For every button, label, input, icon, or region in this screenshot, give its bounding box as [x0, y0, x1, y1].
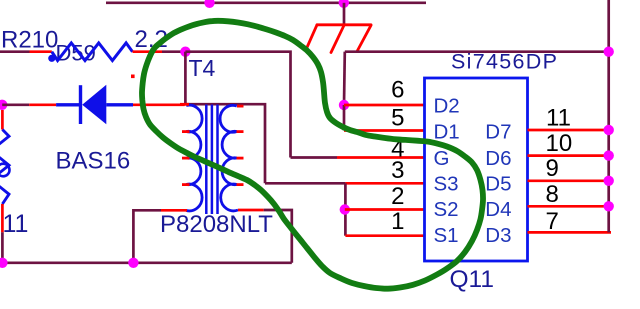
- wire rail from T4 junction east to corner: [185, 52, 290, 158]
- svg-text:7: 7: [546, 208, 559, 235]
- node right rail top junction: [604, 47, 614, 57]
- transformer T4 P8208NLT: [180, 103, 244, 214]
- wire secondary bottom to bottom rail corner: [264, 210, 292, 263]
- node pin 2 junction: [340, 204, 350, 214]
- wire vertical to pin6 junction: [343, 52, 346, 105]
- wire R210 right pin stub: [133, 50, 163, 53]
- wire pin 3 purple from corner: [265, 182, 345, 185]
- svg-text:10: 10: [546, 130, 573, 157]
- svg-text:P8208NLT: P8208NLT: [160, 211, 273, 238]
- wire T4 primary bottom pin stub: [161, 209, 187, 212]
- wire BAS16 anode segment: [2, 103, 29, 106]
- svg-text:D1: D1: [434, 120, 460, 143]
- wire pin 11: [528, 129, 609, 132]
- op chip Q11 Si7456DP box: [425, 78, 528, 261]
- svg-text:D4: D4: [485, 198, 511, 221]
- wire pin 4 stub: [337, 156, 424, 159]
- wire pin 5: [344, 129, 424, 132]
- diode D59 BAS16: [56, 85, 133, 125]
- svg-text:G: G: [434, 147, 450, 170]
- node bottom rail left: [0, 258, 8, 268]
- node top rail junction A: [204, 0, 214, 8]
- wire primary bottom to bottom rail: [133, 210, 161, 262]
- svg-text:BAS16: BAS16: [56, 148, 131, 175]
- wire bottom rail: [2, 261, 291, 264]
- svg-text:8: 8: [546, 181, 559, 208]
- wire R210 left pin stub: [30, 50, 52, 53]
- wire pin 4 gate purple: [291, 156, 338, 159]
- svg-text:Si7456DP: Si7456DP: [451, 50, 558, 74]
- wire pin 6: [344, 104, 424, 107]
- svg-text:D5: D5: [485, 173, 511, 196]
- wire T4 secondary bottom pin stub: [238, 209, 264, 212]
- svg-text:Q11: Q11: [450, 266, 495, 293]
- svg-text:1: 1: [391, 208, 404, 235]
- node blue dot at resistor left: [48, 55, 55, 62]
- wire junction down to pin5: [343, 105, 346, 131]
- wire cathode net over transformer to corner: [185, 104, 265, 183]
- wire T4 primary top lead: [184, 52, 187, 105]
- node pin 10 junction: [604, 150, 614, 160]
- wire pin 7: [528, 231, 612, 234]
- svg-text:11: 11: [3, 210, 29, 238]
- node bottom rail mid: [128, 258, 138, 268]
- wire BAS16 anode pin stub: [29, 103, 56, 106]
- wire pin 1: [345, 234, 424, 237]
- wire chassis net east rail: [345, 50, 609, 53]
- wire pin 10: [528, 154, 609, 157]
- svg-text:9: 9: [546, 155, 559, 182]
- chassis ground symbol: [307, 25, 372, 53]
- annotation green loop: [142, 21, 483, 289]
- node pin 8 junction: [604, 201, 614, 211]
- node pin 11 junction: [604, 125, 614, 135]
- wire BAS16 cathode pin stub: [133, 103, 185, 106]
- node pin 9 junction: [604, 176, 614, 186]
- svg-text:2: 2: [391, 183, 404, 210]
- wire R210 net left segment: [0, 50, 30, 53]
- node top rail junction B: [339, 0, 349, 8]
- resistor R210 zigzag: [52, 43, 133, 61]
- svg-text:11: 11: [546, 104, 571, 131]
- svg-text:S2: S2: [434, 198, 459, 221]
- wire from top rail down to chassis symbol: [343, 3, 346, 26]
- core lines: [205, 105, 208, 215]
- secondary tap marks: [237, 130, 244, 133]
- wire pin 8: [528, 205, 609, 208]
- red marker near T4: [131, 75, 135, 79]
- wire pin 9: [528, 179, 609, 182]
- svg-text:R210: R210: [1, 27, 58, 54]
- primary tap marks: [182, 130, 190, 133]
- node T4 top junction: [180, 47, 190, 57]
- primary winding (left): [186, 105, 202, 211]
- wire left resistor to bottom rail: [1, 232, 4, 262]
- wire pin 3 stub: [345, 182, 424, 185]
- wire pin 2: [345, 208, 424, 211]
- svg-text:D2: D2: [434, 95, 460, 118]
- svg-text:D7: D7: [485, 120, 511, 143]
- svg-text:T4: T4: [189, 55, 216, 81]
- wire top rail: [106, 1, 426, 4]
- wire right vertical rail: [607, 0, 610, 232]
- wire S net vertical: [344, 183, 347, 235]
- svg-text:6: 6: [391, 77, 404, 104]
- secondary winding (right): [220, 105, 238, 211]
- svg-text:S1: S1: [434, 224, 459, 247]
- svg-text:D6: D6: [485, 147, 511, 170]
- svg-text:5: 5: [391, 105, 404, 132]
- svg-text:S3: S3: [434, 173, 459, 196]
- wire to T4 junction: [162, 50, 185, 53]
- node BAS16 left junction: [0, 100, 7, 110]
- node pin6 junction: [339, 100, 349, 110]
- svg-text:D3: D3: [485, 224, 511, 247]
- svg-text:3: 3: [391, 157, 404, 184]
- resistor left edge vertical (clipped): [0, 110, 10, 232]
